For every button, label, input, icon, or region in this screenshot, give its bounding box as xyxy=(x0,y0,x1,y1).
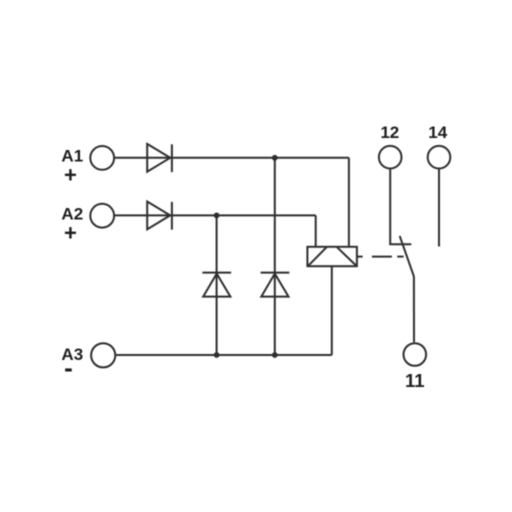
svg-text:12: 12 xyxy=(380,123,399,142)
diode D4 xyxy=(261,273,290,297)
wire A2 horizontal xyxy=(115,214,316,216)
contact lever xyxy=(400,236,414,277)
wire terminal 11 vertical xyxy=(413,276,415,342)
diode D2 xyxy=(147,202,172,230)
contact 12 fixed tick xyxy=(389,243,411,245)
terminal 11 xyxy=(404,343,427,366)
terminal A1 xyxy=(90,146,114,170)
node on A3 line left xyxy=(214,352,220,358)
wire A1 horizontal xyxy=(115,157,349,159)
wire branch 2 vertical xyxy=(274,158,276,355)
terminal A2 xyxy=(90,204,114,228)
svg-text:-: - xyxy=(64,352,73,382)
relay coil K1 xyxy=(307,247,357,266)
wire coil bottom vertical xyxy=(331,266,333,355)
mechanical link dashed xyxy=(357,256,403,258)
terminal A3 xyxy=(91,343,115,367)
wire A2 to coil vertical xyxy=(315,215,317,246)
terminal 14 xyxy=(428,146,451,169)
wire branch 1 vertical xyxy=(216,215,218,355)
svg-text:14: 14 xyxy=(428,123,447,142)
svg-text:+: + xyxy=(64,221,77,246)
svg-text:+: + xyxy=(64,163,77,188)
wire terminal 14 vertical xyxy=(438,170,440,247)
node on A2 line xyxy=(214,213,220,219)
node on A1 line xyxy=(272,155,278,161)
wire terminal 12 vertical xyxy=(389,170,391,245)
terminal 12 xyxy=(379,146,402,169)
diode D1 xyxy=(147,144,172,172)
wire A1 to coil vertical xyxy=(348,158,350,247)
diode D3 xyxy=(202,273,231,297)
svg-text:11: 11 xyxy=(405,370,425,391)
node on A3 line right xyxy=(272,352,278,358)
wire A3 horizontal xyxy=(116,354,332,356)
